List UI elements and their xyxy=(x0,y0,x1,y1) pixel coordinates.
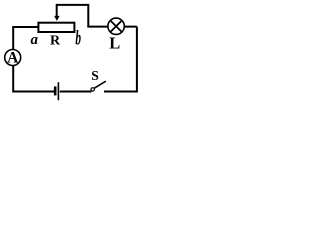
battery cell: negative plate (short thick) xyxy=(54,86,57,95)
wire: left vertical below ammeter, bottom-left corner, bottom wire to battery xyxy=(13,66,54,92)
svg-text:L: L xyxy=(109,33,120,52)
lamp L: bulb circle with cross xyxy=(108,18,124,34)
ammeter A: meter circle xyxy=(5,50,21,66)
wire: switch to bottom-right corner, up right side to lamp rail xyxy=(104,27,137,92)
resistor R (rheostat) body xyxy=(38,23,74,32)
svg-text:a: a xyxy=(30,32,38,48)
wire: slider riser and top jumper over rheostat xyxy=(57,5,89,27)
switch S: pivot contact circle xyxy=(91,88,94,91)
svg-text:A: A xyxy=(7,50,19,67)
wire: lamp rail (riser junction to right vertical) xyxy=(87,26,137,28)
switch S: open lever blade xyxy=(94,81,106,88)
svg-text:R: R xyxy=(50,34,61,49)
battery cell: positive plate (long thin) xyxy=(57,82,59,100)
wire: left vertical (ammeter to top-left corner) and top-left horizontal to rheostat xyxy=(13,27,39,50)
slider arrow head xyxy=(54,16,60,21)
wire: battery to switch pivot xyxy=(60,91,92,93)
svg-text:b: b xyxy=(75,26,81,50)
svg-text:S: S xyxy=(91,68,99,83)
